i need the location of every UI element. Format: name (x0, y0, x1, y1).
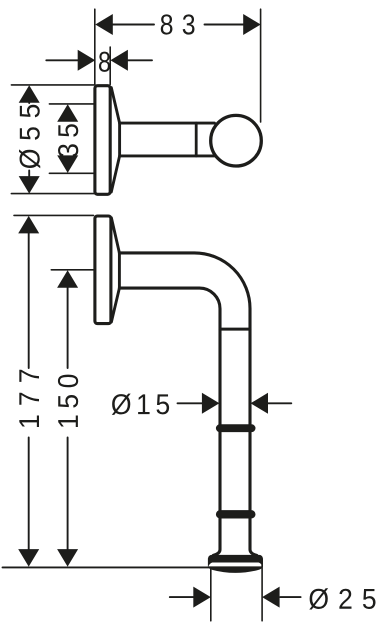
dimension D25: extension line right (261, 564, 263, 621)
dimension 8: left arrowhead (points right) (78, 50, 96, 71)
dimension D15: dimension line tails (178, 402, 292, 404)
dimension 150: extension line top (51, 269, 93, 271)
pipe collar ring 2 (217, 511, 255, 518)
dimension 35: label (rotated) (58, 124, 78, 157)
ball end (top view) (211, 115, 262, 166)
dimension 35: extension line bottom (49, 172, 94, 174)
dimension 8: label (99, 52, 110, 72)
dimension D55: top arrowhead (19, 85, 40, 103)
dimension D55: label (rotated) (19, 105, 40, 169)
dimension 83: extension line left (94, 9, 96, 84)
dimension 8: right arrowhead (points left) (110, 50, 128, 71)
dimension 83: right arrowhead (243, 14, 261, 35)
dimension D55: bottom arrowhead (19, 176, 40, 194)
dimension D55: extension line top (11, 84, 94, 86)
dimension 35: extension line top (49, 103, 94, 105)
dimension 83: extension line right (260, 9, 262, 122)
dimension 177: label (rotated) (19, 370, 39, 427)
arm bottom line + elbow inner curve + pipe left edge (119, 288, 220, 555)
dimension 83: dimension line (112, 24, 244, 26)
foot side skirts connecting rim to base plate (208, 559, 213, 568)
dimension 177: top arrowhead (18, 216, 39, 234)
cone taper (top view) (111, 88, 119, 192)
pipe collar ring 1 (217, 425, 255, 431)
arm joint line (top view) (195, 123, 198, 156)
dimension 177: extension line top (14, 214, 94, 216)
dimension 83: label (161, 14, 195, 34)
dimension 83: left arrowhead (95, 14, 113, 35)
dimension 177: dimension line (28, 233, 30, 550)
foot base plate (bottom lens) (208, 566, 263, 573)
wall plate (lower view) (95, 216, 111, 324)
dimension 177: bottom arrowhead (18, 549, 39, 567)
dimension 8: dimension line tails (46, 59, 152, 61)
dimension D15: label (112, 394, 169, 415)
foot rim (rolled edge of base) (208, 555, 263, 563)
dimension D25: label (309, 588, 375, 609)
arm bottom line (top view) (120, 154, 215, 157)
dimension D25: left arrowhead (points right) (193, 587, 211, 608)
dimension 150: label (rotated) (58, 375, 78, 427)
dimension D15: right arrowhead (points left) (251, 393, 269, 414)
arm top line (top view) (120, 122, 215, 125)
dimension 35: bottom arrowhead (57, 155, 78, 173)
wall plate (top view) (95, 86, 110, 195)
cone taper (lower view) (111, 218, 119, 322)
dimension D55: extension line bottom (11, 193, 94, 195)
dimension 150: top arrowhead (57, 270, 78, 288)
dimension D25: extension line left (210, 567, 212, 620)
dimension 8: extension line right (109, 47, 111, 85)
dimension 150: bottom arrowhead (57, 549, 78, 567)
dimension D25: dimension line tails (170, 596, 301, 598)
dimension 150: dimension line (67, 288, 69, 550)
arm top line + elbow outer curve + pipe right edge (119, 253, 256, 556)
dimension D15: left arrowhead (points right) (202, 393, 220, 414)
floor line (3, 566, 211, 568)
dimension D55: dimension line (28, 100, 30, 177)
dimension D25: right arrowhead (points left) (262, 587, 280, 608)
pipe joint line (220, 328, 250, 331)
dimension 35: top arrowhead (57, 104, 78, 122)
